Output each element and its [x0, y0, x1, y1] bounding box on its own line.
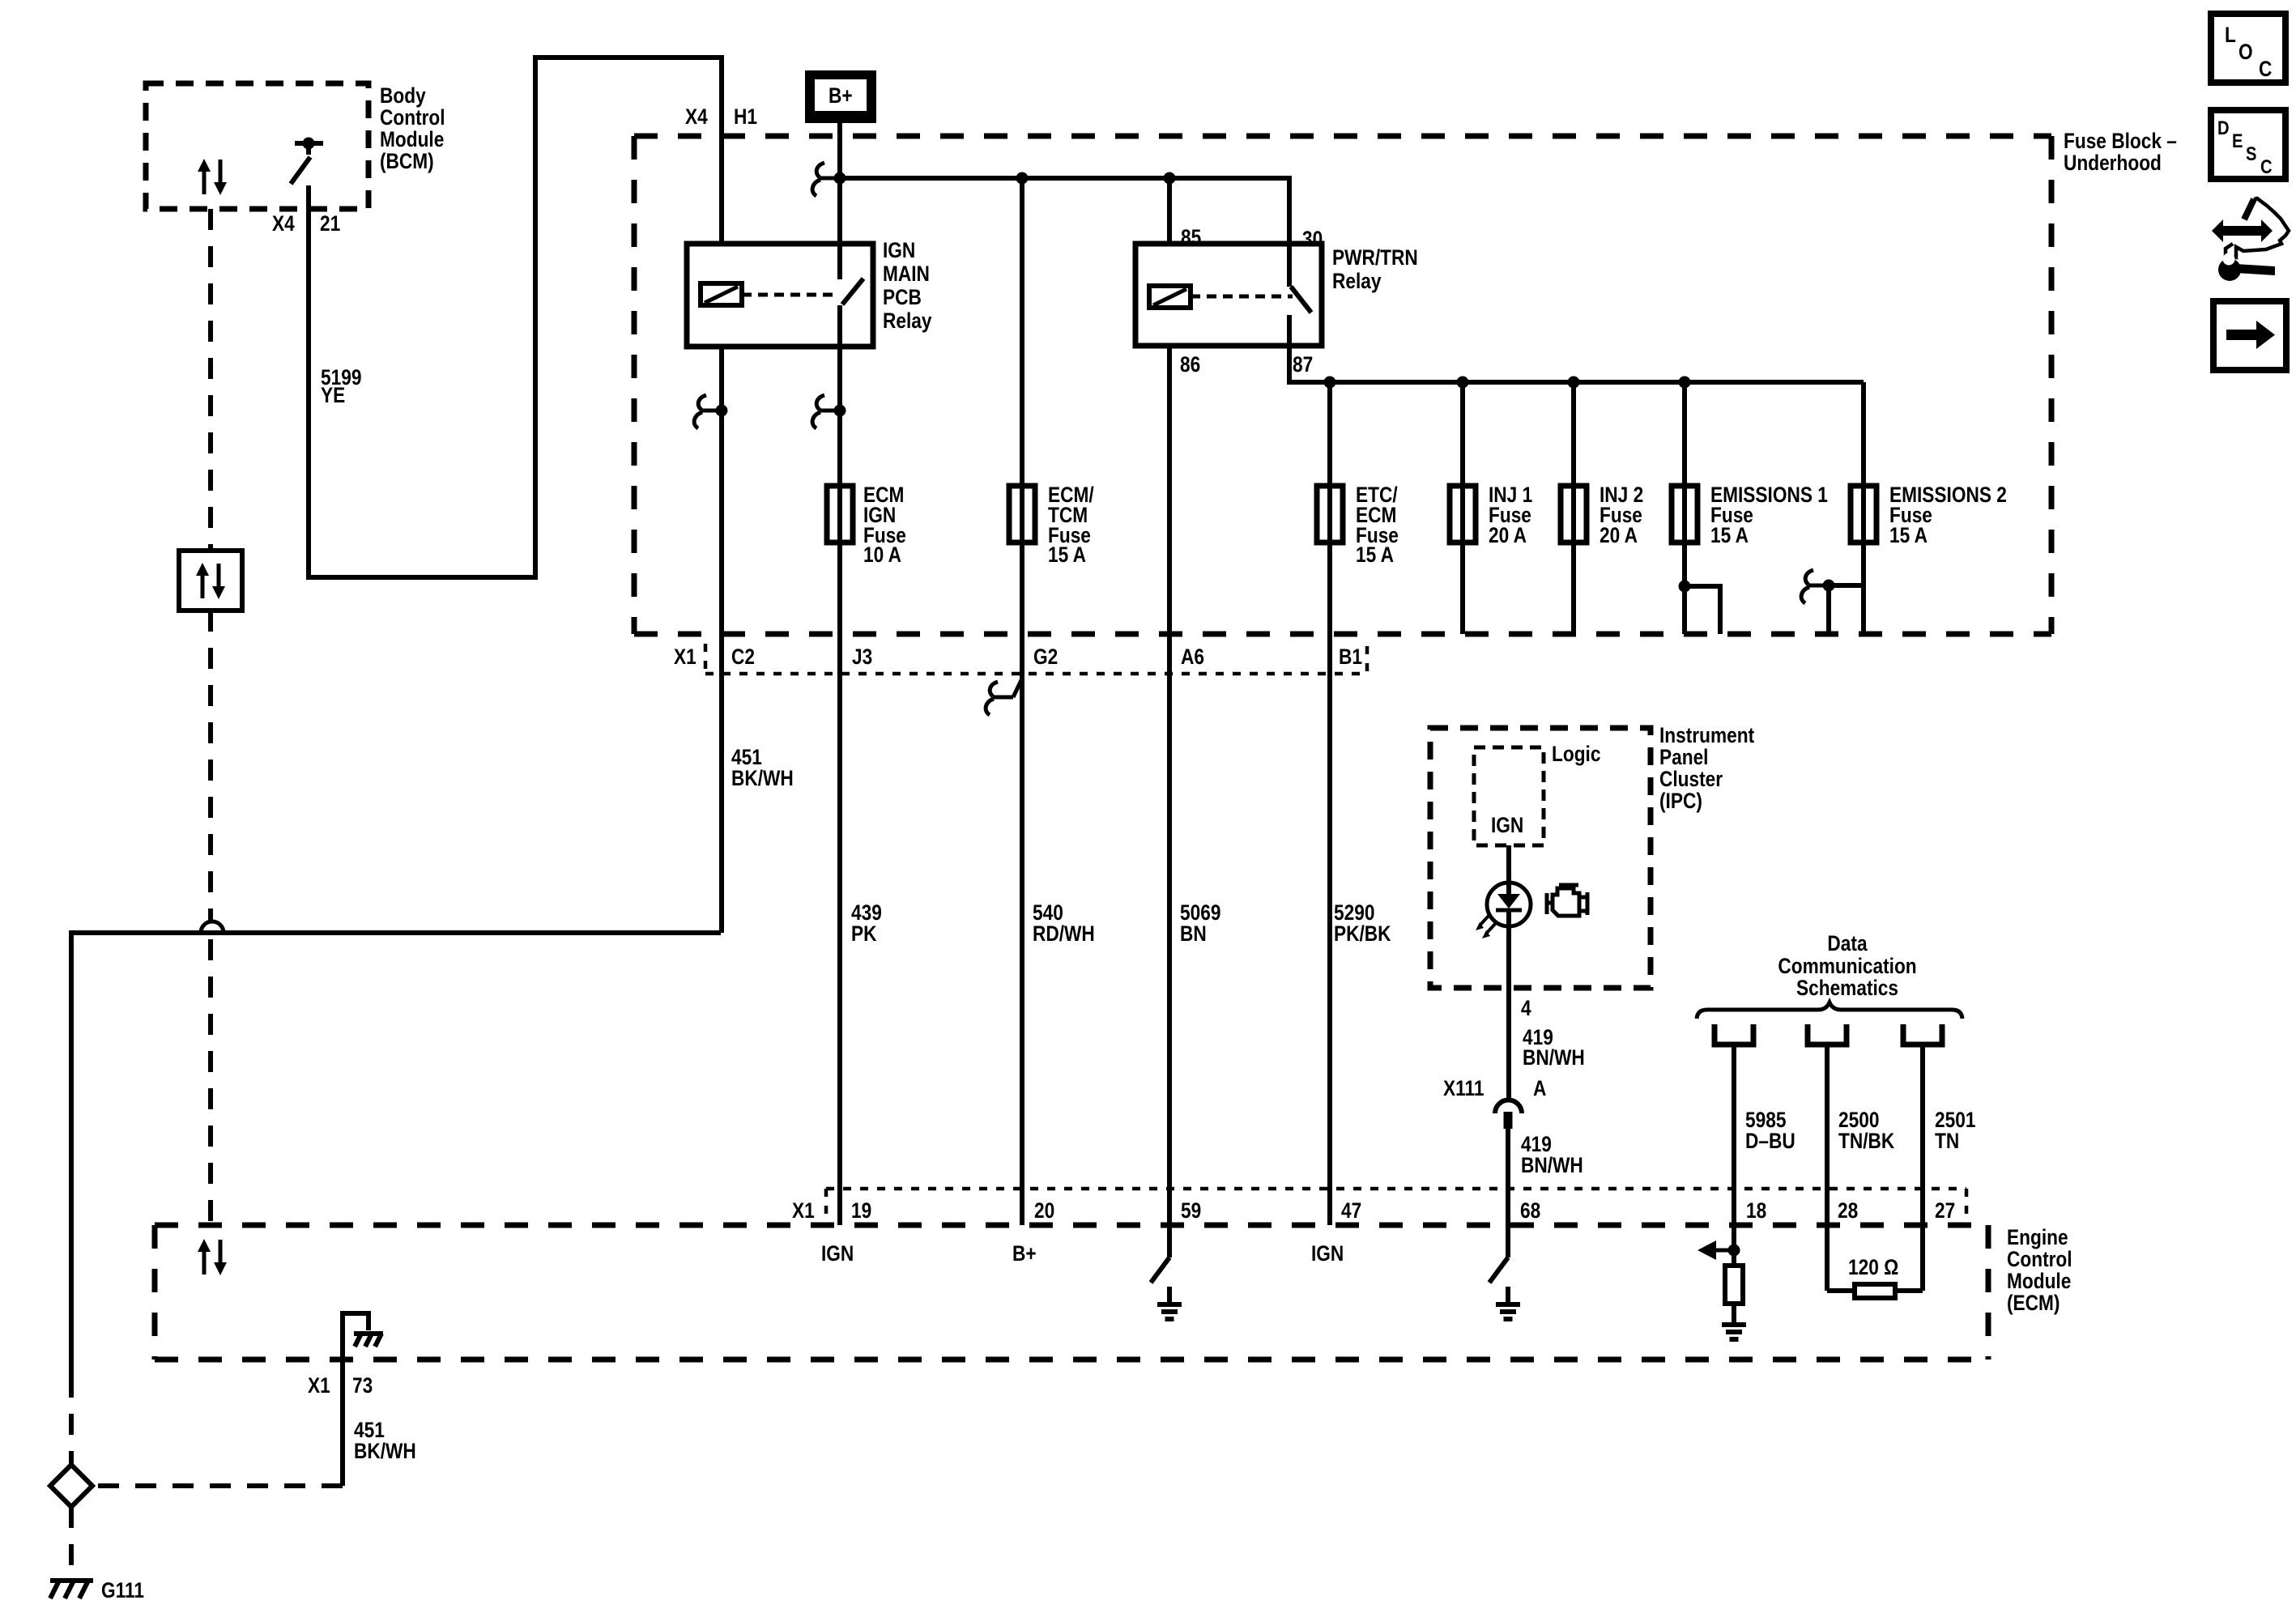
svg-text:59: 59 [1181, 1198, 1201, 1223]
wire 5199 YE from BCM X4-21 up and over to fuse block X4-H1 [309, 57, 722, 577]
svg-text:IGN: IGN [821, 1241, 854, 1266]
svg-text:RD/WH: RD/WH [1033, 921, 1095, 946]
module U1 Body Control Module (BCM) dashed box [146, 83, 368, 209]
pin label 86 (K2 coil) [1180, 352, 1200, 377]
K1 coil-to-contact dashed link [742, 293, 833, 297]
wire from B+ down to IGN MAIN relay switch [837, 123, 842, 244]
pin label C2 [731, 645, 755, 669]
in-line connector symbol (boxed two-way arrows) on serial data wire [179, 551, 242, 611]
ECM internal ground switch at pin 59 [1151, 1257, 1169, 1302]
K1 coil (boxed slash) [701, 283, 742, 305]
svg-text:PWR/TRN: PWR/TRN [1332, 245, 1418, 270]
module Fuse Block - Underhood dashed box [634, 136, 2051, 634]
pin label J3 [852, 645, 872, 669]
svg-text:O: O [2238, 40, 2253, 64]
label EMISSIONS 1 Fuse 15 A [1710, 483, 1828, 547]
svg-text:Logic: Logic [1552, 742, 1601, 766]
label ECM/TCM Fuse 15 A [1048, 483, 1094, 567]
label Fuse Block - Underhood [2064, 129, 2177, 175]
label Engine Control Module (ECM) [2007, 1225, 2072, 1315]
svg-text:D: D [2217, 117, 2230, 138]
resistor (terminating) at ECM pin 18 [1725, 1250, 1743, 1322]
junction dot rail to PWR/TRN relay coil [1164, 172, 1176, 185]
K1 switch contact [840, 244, 863, 347]
svg-text:18: 18 [1746, 1198, 1766, 1223]
junction dot on K1 switch output [834, 405, 846, 417]
icon DESC box [2211, 110, 2285, 179]
svg-text:B1: B1 [1339, 645, 1362, 669]
label Instrument Panel Cluster (IPC) [1659, 723, 1754, 813]
pin label 87 (K2 output) [1293, 352, 1313, 377]
svg-text:X4: X4 [272, 211, 295, 236]
pin label 20 [1034, 1198, 1054, 1223]
wire label 451 BK/WH (lower) [354, 1418, 416, 1463]
wire label 2500 TN/BK [1838, 1108, 1894, 1153]
svg-text:D–BU: D–BU [1745, 1129, 1795, 1153]
wire label 540 RD/WH [1033, 900, 1095, 946]
wire IGN logic to indicator [1506, 845, 1511, 883]
svg-text:S: S [2246, 143, 2256, 164]
junction dot rail to ECM/TCM fuse [1016, 172, 1029, 185]
fuse block X1 connector row (dotted) [705, 644, 1367, 674]
pin label 68 [1520, 1198, 1540, 1223]
indicator LED (malfunction indicator lamp) [1476, 883, 1531, 938]
wire K2 pin 87 output rail [1289, 346, 1864, 382]
svg-text:J3: J3 [852, 645, 872, 669]
svg-text:Underhood: Underhood [2064, 151, 2162, 175]
svg-text:(ECM): (ECM) [2007, 1291, 2060, 1315]
splice hook at EMISSIONS 2 branch [1801, 570, 1829, 603]
wire label 5199 YE [321, 365, 361, 407]
engine icon (check engine) [1547, 885, 1587, 916]
svg-text:47: 47 [1341, 1198, 1361, 1223]
pin label 18 [1746, 1198, 1766, 1223]
svg-text:20 A: 20 A [1489, 523, 1527, 547]
pin label 47 [1341, 1198, 1361, 1223]
connector label X1 (ECM) [792, 1198, 815, 1223]
splice hook at B+ rail tap [812, 163, 840, 196]
pin label B1 [1339, 645, 1362, 669]
pin label X4 (BCM connector) [272, 211, 295, 236]
wire 2501 TN to ECM pin 27 [1920, 1045, 1925, 1291]
branch wire at EMISSIONS 1 output [1685, 586, 1720, 634]
svg-text:PK/BK: PK/BK [1334, 921, 1391, 946]
svg-text:73: 73 [352, 1373, 373, 1398]
wire INJ 1 fuse feed [1460, 382, 1465, 634]
wire 419 BN/WH from X111 to ECM pin 68 [1506, 1129, 1510, 1257]
fuse F2 ECM/TCM Fuse 15 A [1009, 486, 1035, 543]
svg-text:X1: X1 [792, 1198, 815, 1223]
relay K1 IGN MAIN PCB Relay box [687, 244, 873, 347]
ground G111 chassis symbol [50, 1581, 93, 1598]
K2 coil-to-contact dashed link [1191, 295, 1293, 299]
value label 120 ohm [1848, 1255, 1898, 1279]
pin label A (X111) [1533, 1076, 1546, 1100]
wire hop (crossover arc) of serial data wire over ground wire [201, 921, 224, 933]
wire K1 coil low side down to fuse block pin C2 [719, 347, 724, 933]
K2 coil (boxed slash) [1149, 286, 1191, 308]
label ECM IGN Fuse 10 A [863, 483, 906, 567]
fuse F5 INJ 2 Fuse 20 A [1561, 486, 1587, 543]
wire label 5985 D-BU [1745, 1108, 1795, 1153]
pin label 19 [851, 1198, 871, 1223]
svg-text:19: 19 [851, 1198, 871, 1223]
junction dot at ECM pin 18 input [1728, 1245, 1740, 1257]
splice hook on K1 switch output [812, 395, 840, 428]
svg-text:PCB: PCB [883, 285, 922, 309]
svg-text:MAIN: MAIN [883, 262, 930, 286]
svg-text:Data: Data [1827, 931, 1868, 955]
dashed ground wire from pin 73 wire to splice diamond [92, 1483, 343, 1488]
svg-text:(IPC): (IPC) [1659, 789, 1702, 813]
data link connector symbol (DLC leg 2) [1808, 1024, 1847, 1045]
junction dot 87 rail to ETC/ECM fuse [1324, 377, 1336, 389]
pin label G2 [1033, 645, 1058, 669]
svg-text:Communication: Communication [1778, 954, 1916, 978]
svg-text:IGN: IGN [1311, 1241, 1344, 1266]
svg-text:86: 86 [1180, 352, 1200, 377]
label PWR/TRN Relay [1332, 245, 1418, 293]
svg-text:27: 27 [1935, 1198, 1955, 1223]
label ETC/ECM Fuse 15 A [1356, 483, 1399, 567]
svg-text:B+: B+ [1012, 1241, 1037, 1266]
pin label 30 (K2 common) [1302, 227, 1323, 251]
ground wire 451 BK/WH horizontal run to left side [71, 933, 721, 1377]
svg-text:IGN: IGN [883, 238, 915, 262]
IPC Logic dashed box [1474, 747, 1544, 845]
ECM X1 connector row (dotted) [826, 1189, 1966, 1219]
relay K2 PWR/TRN Relay box [1135, 244, 1322, 346]
svg-text:28: 28 [1838, 1198, 1858, 1223]
svg-text:X1: X1 [674, 645, 696, 669]
branch wire at EMISSIONS 2 output [1829, 585, 1864, 634]
fuse F6 EMISSIONS 1 Fuse 15 A [1672, 486, 1698, 543]
svg-text:Panel: Panel [1659, 745, 1708, 769]
label Data Communication Schematics [1778, 931, 1916, 1000]
in-line connector X111 symbol [1495, 1100, 1522, 1130]
label INJ 2 Fuse 20 A [1600, 483, 1643, 547]
svg-text:15 A: 15 A [1048, 543, 1086, 567]
svg-text:PK: PK [851, 921, 876, 946]
pin label A6 [1181, 645, 1204, 669]
svg-text:120 Ω: 120 Ω [1848, 1255, 1898, 1279]
wire INJ 2 fuse feed [1571, 382, 1576, 634]
K2 switch contact [1289, 244, 1311, 346]
fuse F3 ETC/ECM Fuse 15 A [1317, 486, 1343, 543]
connector label X1 (fuse block) [674, 645, 696, 669]
svg-text:Schematics: Schematics [1796, 976, 1898, 1000]
svg-text:C2: C2 [731, 645, 755, 669]
wire ETC/ECM fuse feed down through pin B1 to ECM pin 47 [1327, 382, 1332, 1225]
svg-text:BN/WH: BN/WH [1521, 1153, 1583, 1177]
wire ECM/TCM fuse feed from rail [1020, 178, 1024, 1225]
power feed B+ terminal box [805, 70, 876, 123]
wire 451 BK/WH from ECM pin 73 down [340, 1360, 345, 1486]
svg-text:87: 87 [1293, 352, 1313, 377]
svg-text:4: 4 [1521, 996, 1531, 1020]
pin label 59 [1181, 1198, 1201, 1223]
svg-text:B+: B+ [829, 83, 853, 108]
label Logic [1552, 742, 1601, 766]
pin label H1 (fuse block pin) [734, 104, 757, 129]
svg-text:C: C [2259, 57, 2272, 81]
brace over data communication connectors [1697, 1002, 1962, 1019]
svg-text:Instrument: Instrument [1659, 723, 1754, 747]
svg-text:20: 20 [1034, 1198, 1054, 1223]
label Body Control Module (BCM) [380, 83, 445, 173]
ground symbol below pin 18 resistor [1722, 1325, 1746, 1339]
fuse F7 EMISSIONS 2 Fuse 15 A [1851, 486, 1876, 543]
data link connector symbol (DLC leg 1) [1715, 1024, 1753, 1045]
node label IGN at ECM pin 19 [821, 1241, 854, 1266]
svg-text:G111: G111 [101, 1578, 144, 1602]
wire label 5290 PK/BK [1334, 900, 1391, 946]
svg-text:BK/WH: BK/WH [731, 766, 794, 790]
svg-text:X1: X1 [308, 1373, 330, 1398]
svg-text:TN/BK: TN/BK [1838, 1129, 1894, 1153]
pin label 73 [352, 1373, 373, 1398]
svg-text:L: L [2225, 23, 2236, 47]
data link connector symbol (DLC leg 3) [1903, 1024, 1942, 1045]
svg-text:X4: X4 [685, 104, 708, 129]
svg-text:15 A: 15 A [1889, 523, 1928, 547]
wire label 419 BN/WH (lower) [1521, 1132, 1583, 1177]
svg-text:G2: G2 [1033, 645, 1058, 669]
svg-text:A6: A6 [1181, 645, 1204, 669]
junction dot 87 rail to INJ 2 fuse [1568, 377, 1580, 389]
B+ distribution rail wire [840, 178, 1289, 244]
ground symbol at ECM pin 59 [1157, 1304, 1182, 1319]
svg-text:Cluster: Cluster [1659, 767, 1723, 791]
svg-text:YE: YE [321, 383, 345, 407]
svg-text:30: 30 [1302, 227, 1323, 251]
connector label X111 [1443, 1076, 1485, 1100]
wire K2 coil pin 85 feed from rail [1167, 178, 1172, 244]
label EMISSIONS 2 Fuse 15 A [1889, 483, 2007, 547]
svg-text:85: 85 [1181, 225, 1201, 249]
svg-text:Module: Module [380, 127, 444, 151]
svg-text:H1: H1 [734, 104, 757, 129]
fuse F4 INJ 1 Fuse 20 A [1450, 486, 1476, 543]
label G111 [101, 1578, 144, 1602]
svg-text:X111: X111 [1443, 1076, 1485, 1100]
BCM serial data transceiver symbol [198, 159, 227, 195]
fuse F1 ECM IGN Fuse 10 A [827, 486, 853, 543]
svg-text:BN/WH: BN/WH [1523, 1045, 1585, 1070]
label IGN MAIN PCB Relay [883, 238, 932, 333]
label INJ 1 Fuse 20 A [1489, 483, 1532, 547]
svg-text:21: 21 [320, 211, 340, 236]
svg-text:(BCM): (BCM) [380, 149, 434, 173]
pin label 28 [1838, 1198, 1858, 1223]
module Engine Control Module (ECM) dashed box [155, 1225, 1988, 1360]
ECM internal chassis ground near pin 73 [343, 1313, 383, 1360]
svg-text:Engine: Engine [2007, 1225, 2068, 1249]
wire EMISSIONS 2 fuse feed from 87 rail [1861, 382, 1866, 634]
module IPC Instrument Panel Cluster dashed box [1430, 728, 1651, 988]
wire label 5069 BN [1180, 900, 1220, 946]
svg-text:Control: Control [2007, 1247, 2072, 1271]
serial data wire (dashed) from BCM down to ECM [208, 209, 213, 1225]
ground symbol at ECM pin 68 [1496, 1304, 1520, 1319]
wire label 451 BK/WH (upper) [731, 745, 794, 790]
pin label X4 (fuse block connector) [685, 104, 708, 129]
pin label 27 [1935, 1198, 1955, 1223]
pin label 21 (BCM pin) [320, 211, 340, 236]
serial data continuation arrow at ECM pin 18 [1698, 1240, 1734, 1260]
splice branch jog with hook at pin G2 [986, 679, 1022, 715]
wire label 439 PK [851, 900, 882, 946]
splice diamond (ground splice) [50, 1465, 92, 1507]
wire label 2501 TN [1935, 1108, 1976, 1153]
wire EMISSIONS 1 fuse feed [1682, 382, 1687, 634]
wire label 419 BN/WH (upper) [1523, 1025, 1585, 1070]
svg-text:Relay: Relay [1332, 269, 1382, 293]
pin label 85 (K2 coil) [1181, 225, 1201, 249]
label IGN (logic output) [1491, 813, 1523, 837]
junction dot EMISSIONS 1 branch [1679, 581, 1691, 593]
junction dot 87 rail to EMISSIONS 1 fuse [1679, 377, 1691, 389]
pin label 4 (IPC) [1521, 996, 1531, 1020]
junction dot 87 rail to INJ 1 fuse [1457, 377, 1469, 389]
svg-text:C: C [2260, 155, 2273, 177]
dashed wire from splice diamond to ground G111 [69, 1507, 74, 1577]
icon forward arrow box [2213, 301, 2286, 370]
node label B+ at ECM pin 20 [1012, 1241, 1037, 1266]
svg-text:BN: BN [1180, 921, 1207, 946]
svg-text:IGN: IGN [1491, 813, 1523, 837]
node label IGN at ECM pin 47 [1311, 1241, 1344, 1266]
ECM serial data transceiver symbol [198, 1239, 227, 1275]
svg-text:TN: TN [1935, 1129, 1959, 1153]
svg-text:15 A: 15 A [1356, 543, 1394, 567]
BCM internal switch (ignition output driver) [291, 138, 323, 185]
resistor R 120 ohm between pins 28 and 27 [1827, 1284, 1923, 1298]
ECM internal ground switch at pin 68 [1489, 1257, 1508, 1302]
wire K1 switch output down through ECM IGN fuse to pin J3 [837, 347, 842, 1225]
wire K2 pin 86 down through pin A6 to ECM pin 59 [1167, 346, 1172, 1257]
splice hook on K1 coil wire [694, 395, 722, 428]
dashed ground wire left side down to splice diamond [69, 1377, 74, 1465]
junction dot at B+ rail tap [834, 172, 846, 185]
svg-text:68: 68 [1520, 1198, 1540, 1223]
icon LOC box (top right) [2211, 14, 2285, 83]
wire 2500 TN/BK to ECM pin 28 [1825, 1045, 1830, 1291]
svg-text:Control: Control [380, 105, 445, 130]
svg-text:E: E [2232, 130, 2243, 151]
svg-text:10 A: 10 A [863, 543, 901, 567]
wire 5985 D-BU to ECM pin 18 [1732, 1045, 1736, 1250]
icon vehicle with two-way arrow and wrench [2212, 198, 2289, 281]
svg-text:A: A [1533, 1076, 1546, 1100]
svg-text:20 A: 20 A [1600, 523, 1638, 547]
wire from lamp down to X111 [1506, 926, 1511, 1099]
svg-text:15 A: 15 A [1710, 523, 1749, 547]
svg-text:Module: Module [2007, 1269, 2071, 1293]
junction dot on K1 coil wire [716, 405, 728, 417]
svg-text:Relay: Relay [883, 309, 932, 333]
svg-text:BK/WH: BK/WH [354, 1439, 416, 1463]
svg-text:Body: Body [380, 83, 426, 108]
connector label X1 (ECM bottom) [308, 1373, 330, 1398]
junction dot at EMISSIONS 2 branch [1823, 580, 1835, 592]
svg-text:Fuse Block –: Fuse Block – [2064, 129, 2177, 153]
